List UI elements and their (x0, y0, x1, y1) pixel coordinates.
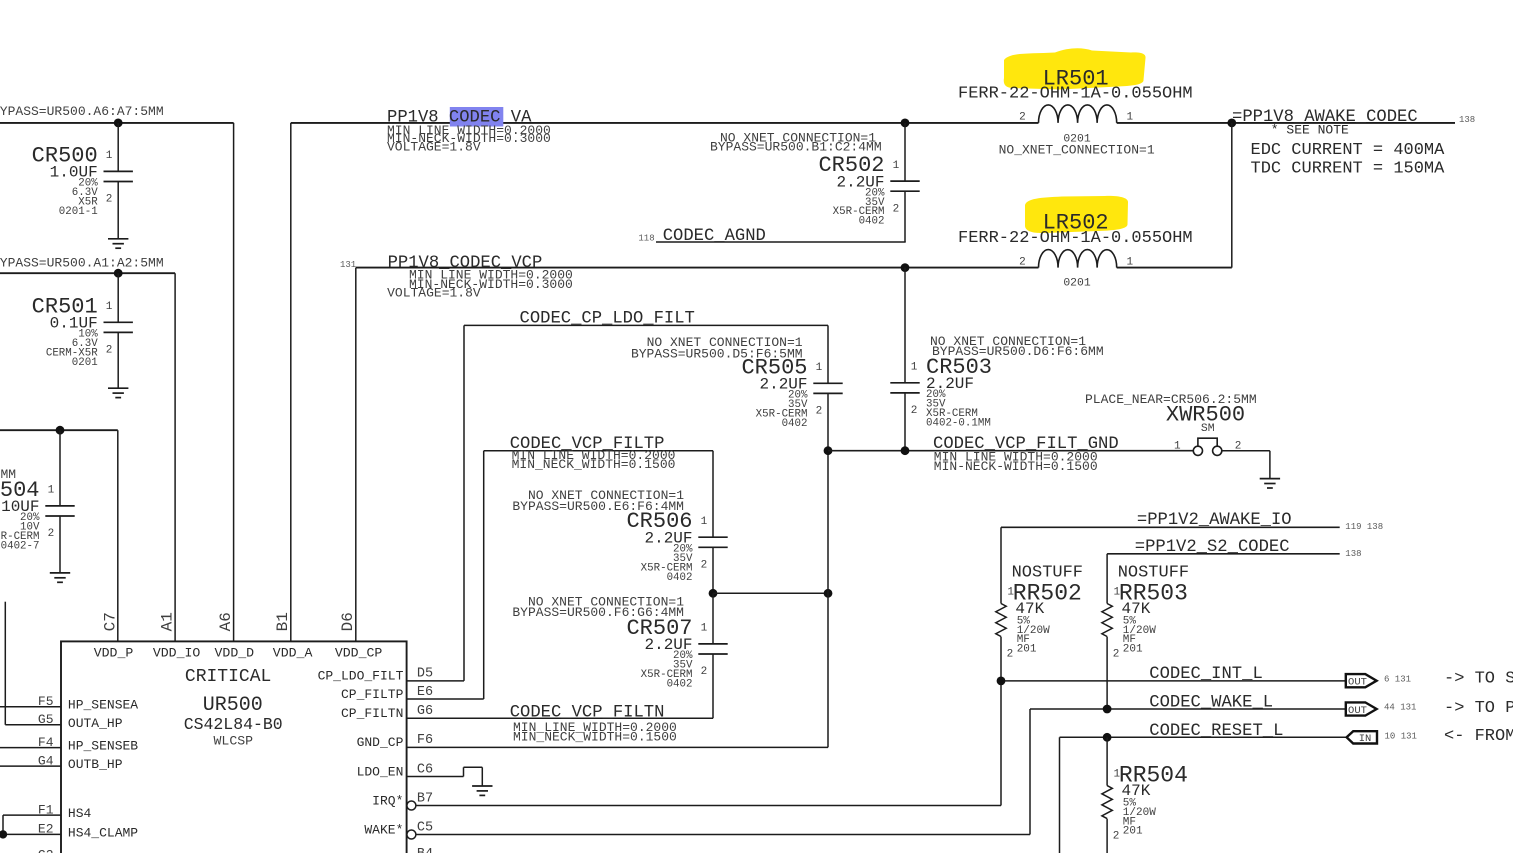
svg-text:138: 138 (1345, 549, 1361, 559)
svg-text:E6: E6 (417, 685, 433, 700)
svg-text:0402: 0402 (667, 678, 693, 690)
capacitor CR507 (626, 616, 727, 691)
resistor RR502 (996, 564, 1083, 661)
net CODEC_AGND (638, 227, 905, 246)
svg-text:C7: C7 (101, 612, 119, 631)
svg-text:118: 118 (638, 233, 654, 243)
inductor LR502 (958, 210, 1193, 289)
wire OUTA_HP stub up (4, 602, 6, 725)
svg-text:VDD_CP: VDD_CP (335, 645, 383, 660)
svg-text:B7: B7 (417, 791, 433, 806)
junction VA / CR502 (901, 119, 910, 128)
svg-text:2: 2 (701, 666, 708, 678)
svg-text:A1: A1 (158, 612, 176, 631)
capacitor CR505 (741, 355, 842, 430)
svg-text:1: 1 (48, 485, 55, 497)
svg-text:MIN_NECK_WIDTH=0.1500: MIN_NECK_WIDTH=0.1500 (512, 457, 676, 472)
pin F4 HP_SENSEB (0, 735, 138, 754)
svg-text:IRQ*: IRQ* (372, 793, 403, 808)
svg-text:OUTA_HP: OUTA_HP (68, 716, 123, 731)
pin B7 IRQ* (372, 791, 433, 810)
junction CR503/GND rail (901, 446, 910, 455)
svg-text:BYPASS=UR500.A1:A2:5MM: BYPASS=UR500.A1:A2:5MM (0, 255, 164, 270)
ground (50, 573, 70, 582)
junction GND column mid (824, 589, 833, 598)
svg-text:2: 2 (701, 560, 708, 572)
svg-text:1: 1 (106, 301, 113, 313)
net CODEC_CP_LDO_FILT (407, 325, 828, 681)
svg-text:IN: IN (1359, 733, 1372, 745)
pin A1 VDD_IO (153, 612, 201, 660)
net CODEC_VCP_FILTP (407, 451, 713, 699)
svg-text:MIN-NECK-WIDTH=0.1500: MIN-NECK-WIDTH=0.1500 (934, 459, 1098, 474)
pin C7 VDD_P (94, 612, 134, 660)
svg-text:2: 2 (1113, 831, 1120, 843)
junction RR504/RESET (1103, 733, 1112, 742)
highlight LR502 (yellow marker) (1025, 196, 1128, 233)
pin D6 VDD_CP (335, 612, 383, 660)
svg-text:A6: A6 (217, 612, 235, 631)
svg-text:C5: C5 (417, 820, 433, 835)
svg-text:1: 1 (701, 516, 708, 528)
wire GND_CP (F6) to gnd column (407, 451, 828, 748)
net =PP1V2_S2_CODEC (1107, 554, 1340, 604)
svg-text:CODEC_CP_LDO_FILT: CODEC_CP_LDO_FILT (520, 309, 695, 328)
svg-text:44 131: 44 131 (1384, 703, 1416, 713)
wire CR505 pin2 (827, 393, 829, 450)
svg-text:UR500: UR500 (203, 694, 263, 717)
svg-text:VOLTAGE=1.8V: VOLTAGE=1.8V (387, 286, 481, 301)
svg-text:FERR-22-OHM-1A-0.055OHM: FERR-22-OHM-1A-0.055OHM (958, 229, 1193, 248)
wire CR502 pin1 (904, 123, 906, 181)
wire CR507 pin2 (712, 654, 714, 718)
junction RR503/WAKE (1103, 705, 1112, 714)
svg-text:0201: 0201 (72, 357, 98, 369)
wire CR504 row to VDD_P (0, 430, 118, 641)
ground (108, 388, 128, 397)
svg-text:2: 2 (816, 406, 823, 418)
resistor RR503 (1102, 564, 1189, 661)
svg-text:D5: D5 (417, 667, 433, 682)
wire CR502 pin2 to CODEC_AGND (904, 191, 906, 242)
svg-text:F4: F4 (38, 735, 54, 750)
wire CR501 pin1 (117, 273, 119, 322)
pin C5 WAKE* (364, 820, 433, 839)
svg-text:OUTB_HP: OUTB_HP (68, 757, 123, 772)
svg-text:FERR-22-OHM-1A-0.055OHM: FERR-22-OHM-1A-0.055OHM (958, 85, 1193, 104)
net segment PP1V8_CODEC_VA bypass (to CR500 / VDD_D) (0, 123, 234, 642)
svg-text:0402-7: 0402-7 (1, 540, 40, 552)
wire CR507 pin1 (712, 593, 714, 644)
svg-text:1: 1 (1127, 256, 1134, 268)
junction VA / AWAKE_CODEC (1227, 119, 1236, 128)
capacitor CR501 (32, 294, 133, 369)
svg-text:B1: B1 (274, 612, 292, 631)
ground (1260, 479, 1280, 488)
svg-text:WAKE*: WAKE* (364, 822, 403, 837)
svg-text:HS4: HS4 (68, 806, 92, 821)
wire XWR500 pin2 to ground (1222, 451, 1270, 479)
svg-text:B4: B4 (417, 847, 433, 853)
svg-text:G2: G2 (38, 848, 54, 853)
svg-text:CRITICAL: CRITICAL (185, 667, 271, 687)
capacitor CR500 (32, 143, 133, 218)
svg-text:WLCSP: WLCSP (214, 734, 254, 749)
svg-text:VDD_D: VDD_D (215, 645, 255, 660)
wire RR503 pin2 down to WAKE (1106, 637, 1108, 709)
svg-text:2: 2 (106, 194, 113, 206)
pin D5 CP_LDO_FILT (318, 667, 434, 684)
svg-text:HP_SENSEA: HP_SENSEA (68, 698, 138, 713)
wire LDO_EN (C6) to ground jog (407, 767, 483, 786)
wire CR501 pin2 to ground (117, 332, 119, 388)
junction RR502/INT (997, 677, 1006, 686)
svg-text:LDO_EN: LDO_EN (357, 764, 404, 779)
svg-text:1: 1 (106, 150, 113, 162)
net segment PP1V8_CODEC_VCP bypass (to CR501 / VDD_IO) (0, 273, 175, 641)
jumper XWR500 (1166, 402, 1245, 455)
ground (472, 786, 492, 795)
highlight LR501 (yellow marker) (1004, 48, 1146, 89)
svg-text:G4: G4 (38, 753, 54, 768)
net CODEC_WAKE_L (1030, 709, 1346, 835)
pin B1 VDD_A (273, 612, 313, 660)
flag OUT (CODEC_INT_L) (1346, 674, 1377, 689)
junction CR505/GND rail (824, 446, 833, 455)
wire CR506 pin2 (712, 547, 714, 593)
wire WAKE* (C5) to WAKE column (416, 834, 1030, 836)
flag IN (CODEC_RESET_L) (1347, 731, 1377, 745)
highlight CODEC (search selection) (450, 107, 504, 127)
svg-text:F1: F1 (38, 802, 54, 817)
capacitor CR504 (0, 478, 75, 553)
capacitor CR503 (890, 355, 992, 430)
svg-text:D6: D6 (339, 612, 357, 631)
svg-text:131: 131 (340, 260, 356, 270)
wire CR503 pin2 (904, 393, 906, 451)
pin F6 GND_CP (357, 733, 434, 750)
pin E2 HS4_CLAMP (0, 822, 138, 841)
svg-text:138: 138 (1459, 115, 1475, 125)
svg-text:1: 1 (893, 160, 900, 172)
svg-text:=PP1V2_S2_CODEC: =PP1V2_S2_CODEC (1135, 538, 1290, 557)
wire midpoint to GND column (713, 592, 828, 594)
svg-text:1: 1 (1174, 440, 1181, 452)
svg-text:E2: E2 (38, 822, 54, 837)
pin E6 CP_FILTP (341, 685, 433, 702)
wire HS4 tie to HS4_CLAMP (2, 815, 4, 834)
svg-text:119 138: 119 138 (1345, 522, 1383, 532)
junction CR500 tap (114, 119, 123, 128)
svg-text:CP_FILTN: CP_FILTN (341, 706, 403, 721)
svg-text:CODEC_RESET_L: CODEC_RESET_L (1149, 722, 1283, 741)
svg-text:0402: 0402 (667, 572, 693, 584)
svg-text:2: 2 (1019, 112, 1026, 124)
wire RR504 pin2 down (1106, 819, 1108, 853)
svg-text:* SEE NOTE: * SEE NOTE (1271, 123, 1349, 138)
svg-text:F6: F6 (417, 733, 433, 748)
svg-text:BYPASS=UR500.A6:A7:5MM: BYPASS=UR500.A6:A7:5MM (0, 104, 164, 119)
junction CR506/CR507 midpoint (709, 589, 718, 598)
svg-text:HS4_CLAMP: HS4_CLAMP (68, 825, 138, 840)
flag OUT (CODEC_WAKE_L) (1346, 702, 1377, 717)
pin F1 HS4 (3, 802, 92, 821)
svg-text:BYPASS=UR500.D6:F6:6MM: BYPASS=UR500.D6:F6:6MM (932, 344, 1104, 359)
svg-text:2: 2 (1007, 649, 1014, 661)
svg-text:0402: 0402 (782, 418, 808, 430)
svg-text:BYPASS=UR500.B1:C2:4MM: BYPASS=UR500.B1:C2:4MM (710, 139, 882, 154)
svg-text:CP_FILTP: CP_FILTP (341, 687, 404, 702)
wire CR504 pin1 (59, 430, 61, 506)
svg-text:1: 1 (911, 362, 918, 374)
wire RR504 pin1 (1106, 737, 1108, 785)
svg-text:-> TO S: -> TO S (1444, 669, 1513, 688)
capacitor CR502 (818, 153, 919, 228)
resistor RR504 (1102, 762, 1188, 842)
svg-text:2: 2 (106, 345, 113, 357)
net CODEC_RESET_L (1060, 737, 1347, 853)
inductor LR501 (958, 67, 1193, 158)
svg-text:OUT: OUT (1348, 677, 1367, 689)
svg-text:2: 2 (911, 405, 918, 417)
pin C6 LDO_EN (357, 762, 434, 779)
svg-text:NO_XNET_CONNECTION=1: NO_XNET_CONNECTION=1 (999, 142, 1155, 157)
svg-text:=PP1V2_AWAKE_IO: =PP1V2_AWAKE_IO (1137, 511, 1292, 530)
wire IRQ* (B7) to RR502 column (416, 805, 1001, 807)
svg-text:-> TO P: -> TO P (1444, 699, 1513, 718)
svg-text:1: 1 (816, 362, 823, 374)
net PP1V8_CODEC_VA rail (291, 123, 1455, 642)
svg-text:<- FROM: <- FROM (1444, 727, 1513, 746)
svg-text:C6: C6 (417, 762, 433, 777)
pin G6 CP_FILTN (341, 704, 433, 721)
svg-text:201: 201 (1017, 644, 1037, 656)
junction CR501 tap (114, 269, 123, 278)
svg-text:HP_SENSEB: HP_SENSEB (68, 739, 138, 754)
svg-text:F5: F5 (38, 694, 54, 709)
svg-text:2: 2 (893, 203, 900, 215)
svg-text:0402-0.1MM: 0402-0.1MM (926, 417, 991, 429)
svg-text:2: 2 (1113, 649, 1120, 661)
svg-text:10 131: 10 131 (1385, 731, 1417, 741)
pin F5 HP_SENSEA (0, 694, 138, 713)
svg-text:VDD_A: VDD_A (273, 645, 313, 660)
op-amp/codec IC UR500 body (61, 641, 407, 853)
net CODEC_VCP_FILTN (407, 717, 713, 719)
svg-text:CODEC_INT_L: CODEC_INT_L (1149, 665, 1262, 684)
svg-text:CODEC_AGND: CODEC_AGND (663, 227, 766, 246)
svg-text:EDC CURRENT = 400MA: EDC CURRENT = 400MA (1251, 141, 1446, 160)
svg-text:201: 201 (1123, 644, 1143, 656)
svg-text:TDC CURRENT = 150MA: TDC CURRENT = 150MA (1251, 160, 1446, 179)
svg-text:MIN_NECK_WIDTH=0.1500: MIN_NECK_WIDTH=0.1500 (513, 730, 677, 745)
svg-text:GND_CP: GND_CP (357, 735, 404, 750)
svg-text:201: 201 (1123, 826, 1143, 838)
svg-text:CS42L84-B0: CS42L84-B0 (184, 715, 283, 734)
svg-text:G5: G5 (38, 712, 54, 727)
svg-text:SM: SM (1201, 423, 1215, 435)
wire CR503 pin1 (904, 268, 906, 383)
svg-text:0201-1: 0201-1 (59, 206, 98, 218)
net PP1V8_CODEC_VCP rail (356, 123, 1232, 642)
capacitor CR506 (626, 509, 727, 584)
svg-text:1: 1 (1127, 112, 1134, 124)
wire CR504 pin2 to ground (59, 516, 61, 573)
junction VCP / CR503 (901, 263, 910, 272)
wire CR500 pin2 to ground (117, 182, 119, 239)
svg-text:CP_LDO_FILT: CP_LDO_FILT (318, 669, 404, 684)
svg-text:OUT: OUT (1348, 705, 1367, 717)
wire RR502 pin2 down to IRQ (1000, 637, 1002, 806)
pin G5 OUTA_HP (5, 712, 122, 731)
svg-text:VOLTAGE=1.8V: VOLTAGE=1.8V (387, 139, 481, 154)
svg-text:2: 2 (1019, 256, 1026, 268)
svg-text:2: 2 (48, 528, 55, 540)
svg-text:0402: 0402 (859, 216, 885, 228)
wire CR500 pin1 (117, 123, 119, 171)
svg-text:6 131: 6 131 (1384, 674, 1411, 684)
junction CR504 tap (56, 426, 65, 435)
svg-text:G6: G6 (417, 704, 433, 719)
svg-text:CODEC_WAKE_L: CODEC_WAKE_L (1149, 694, 1273, 713)
svg-text:VDD_IO: VDD_IO (153, 645, 201, 660)
pin G4 OUTB_HP (0, 753, 123, 772)
svg-text:VDD_P: VDD_P (94, 645, 134, 660)
net CODEC_INT_L (1001, 680, 1346, 682)
junction HS4 tie (0, 830, 7, 838)
ground (108, 239, 128, 248)
net =PP1V2_AWAKE_IO (1001, 527, 1340, 603)
net CODEC_VCP_FILT_GND rail (828, 450, 1193, 452)
pin A6 VDD_D (215, 612, 255, 660)
svg-text:0201: 0201 (1063, 278, 1091, 290)
svg-text:1: 1 (701, 623, 708, 635)
